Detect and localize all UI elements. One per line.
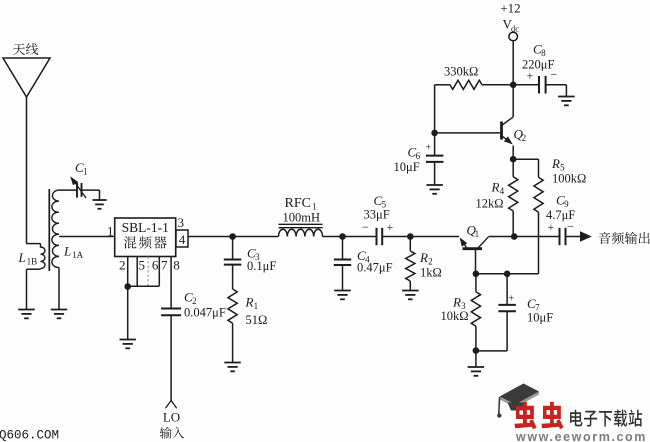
svg-text:4: 4 <box>179 232 186 247</box>
svg-text:1A: 1A <box>72 250 84 260</box>
svg-text:+: + <box>509 294 515 305</box>
svg-text:2: 2 <box>119 258 126 273</box>
svg-text:10μF: 10μF <box>394 160 420 174</box>
svg-text:R: R <box>551 156 560 171</box>
svg-text:6: 6 <box>152 258 159 273</box>
svg-text:0.1μF: 0.1μF <box>247 259 276 273</box>
svg-text:0.47μF: 0.47μF <box>357 261 393 275</box>
svg-text:−: − <box>362 220 369 234</box>
svg-text:1: 1 <box>83 167 88 177</box>
svg-text:8: 8 <box>541 48 546 58</box>
svg-text:+12: +12 <box>500 0 520 15</box>
svg-text:8: 8 <box>173 258 180 273</box>
svg-text:220μF: 220μF <box>522 58 554 72</box>
svg-text:100kΩ: 100kΩ <box>552 172 586 186</box>
svg-text:51Ω: 51Ω <box>246 313 268 327</box>
svg-text:10kΩ: 10kΩ <box>441 309 469 323</box>
svg-text:5: 5 <box>138 258 145 273</box>
svg-text:R: R <box>245 295 254 310</box>
svg-text:2: 2 <box>522 133 527 143</box>
svg-text:2: 2 <box>192 296 197 306</box>
svg-text:1B: 1B <box>27 257 38 267</box>
svg-text:100mH: 100mH <box>283 211 321 225</box>
svg-text:R: R <box>452 295 461 310</box>
svg-text:R: R <box>419 250 428 265</box>
svg-text:12kΩ: 12kΩ <box>476 197 504 211</box>
svg-text:+: + <box>426 143 432 154</box>
svg-text:www.eeworm.com: www.eeworm.com <box>515 430 647 442</box>
svg-text:7: 7 <box>161 258 168 273</box>
svg-text:Q606.COM: Q606.COM <box>0 429 59 442</box>
svg-text:1: 1 <box>107 224 114 239</box>
svg-text:SBL-1-1: SBL-1-1 <box>122 220 169 235</box>
svg-text:L: L <box>63 244 71 259</box>
svg-text:+: + <box>548 220 555 234</box>
svg-text:RFC: RFC <box>285 196 311 211</box>
svg-text:4: 4 <box>500 186 505 196</box>
svg-text:1kΩ: 1kΩ <box>420 266 442 280</box>
svg-text:0.047μF: 0.047μF <box>184 306 226 320</box>
svg-text:R: R <box>491 180 500 195</box>
svg-text:4.7μF: 4.7μF <box>546 208 575 222</box>
svg-text:10μF: 10μF <box>527 311 553 325</box>
svg-text:L: L <box>18 250 26 265</box>
svg-text:3: 3 <box>178 215 185 230</box>
svg-text:LO: LO <box>163 410 180 425</box>
svg-text:+: + <box>387 220 394 234</box>
svg-text:33μF: 33μF <box>364 208 390 222</box>
svg-text:330kΩ: 330kΩ <box>444 65 478 79</box>
svg-text:1: 1 <box>475 229 480 239</box>
svg-text:1: 1 <box>254 301 259 311</box>
